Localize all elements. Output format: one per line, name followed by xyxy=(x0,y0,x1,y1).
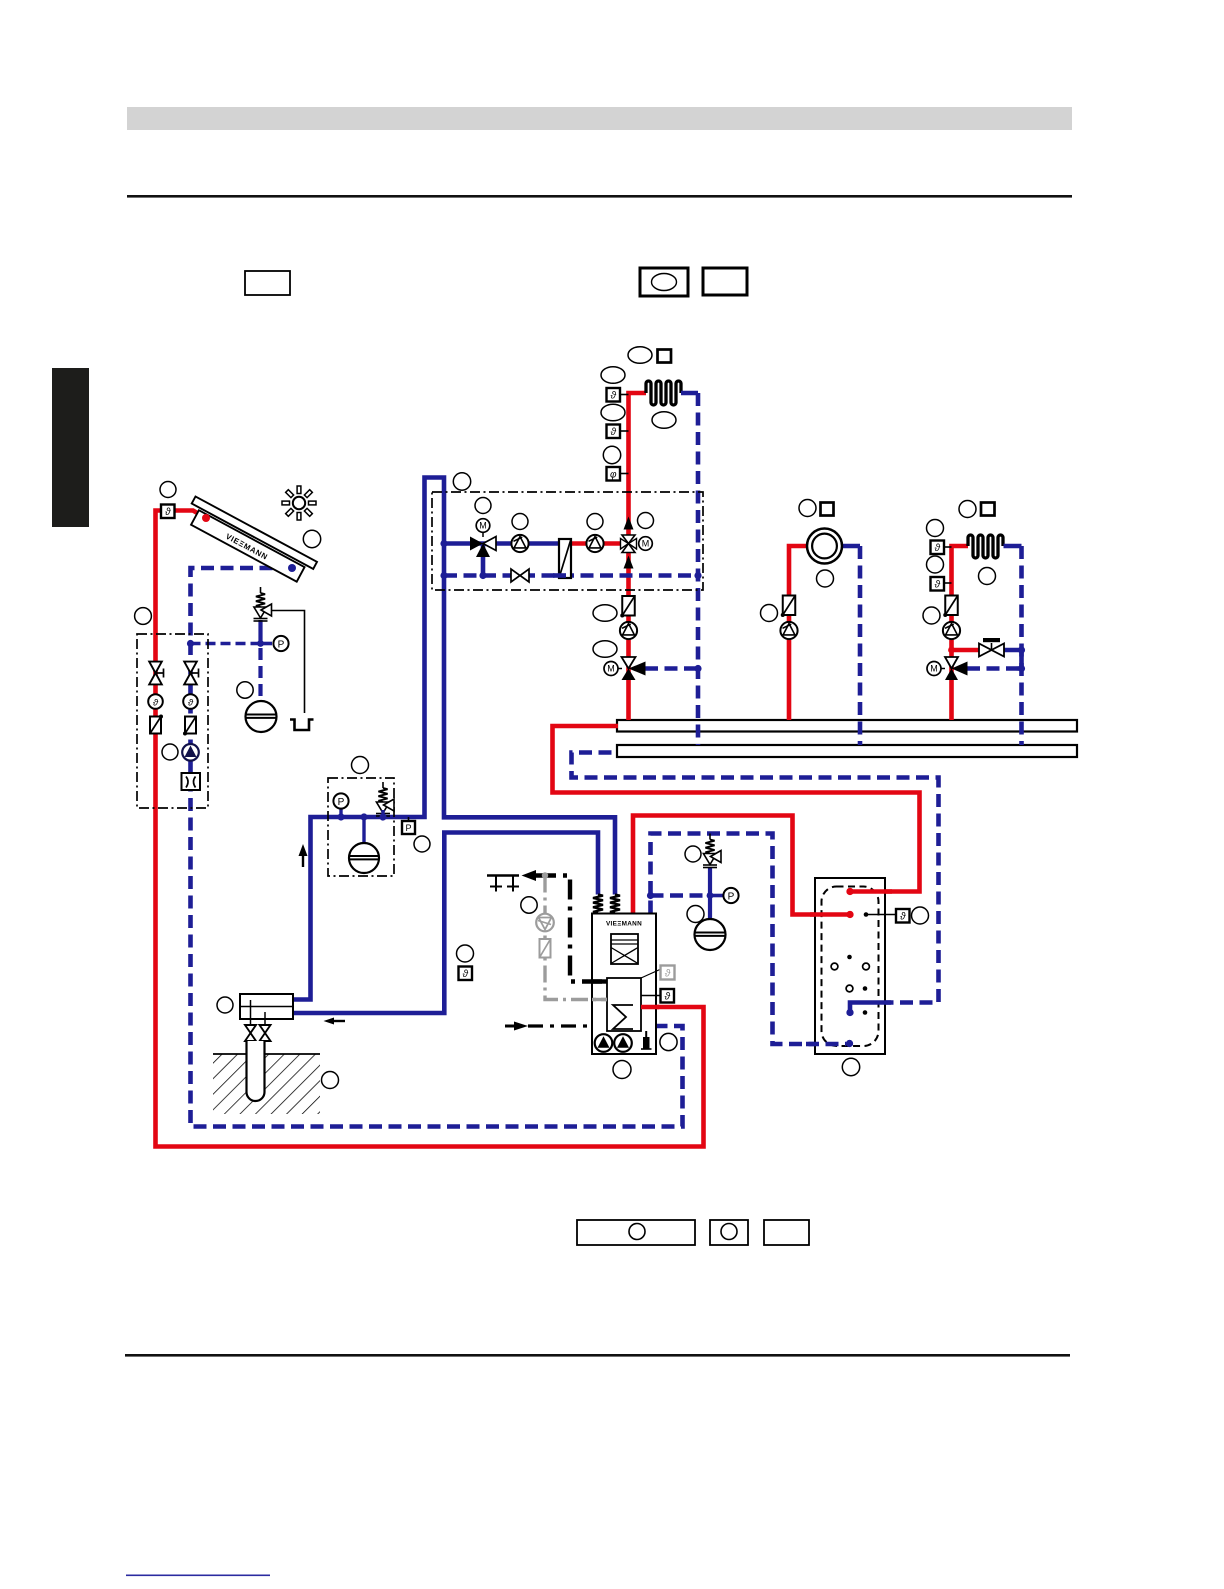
solar collector panel xyxy=(183,497,317,586)
square label circuit 1 xyxy=(658,350,672,363)
svg-text:φ: φ xyxy=(610,470,617,481)
balloon c3 mid xyxy=(979,568,996,585)
legend controller box 2 xyxy=(703,268,747,295)
probe shutoff valve left xyxy=(245,1025,256,1033)
HP heat exchanger block xyxy=(607,978,641,1031)
heating circuit 1 return (blue) xyxy=(681,391,698,396)
balloon tank xyxy=(842,1058,859,1075)
footer link line xyxy=(126,1575,270,1577)
balloon sensor c3 a xyxy=(927,520,944,537)
circuit 3 bypass (red + blue) xyxy=(952,648,980,653)
tank pipe stubs over casing xyxy=(850,889,892,894)
circuit 3 pump xyxy=(943,622,960,639)
sensor flow temp 1 xyxy=(620,394,629,396)
heating circuit 2 supply (red) xyxy=(789,546,807,720)
svg-text:ϑ: ϑ xyxy=(935,580,941,591)
heating circuit 3 supply (red) xyxy=(952,546,969,720)
balloon circuit 3 top xyxy=(959,501,976,518)
solar expansion vessel xyxy=(246,701,277,732)
balloon below air heater xyxy=(817,570,834,587)
well supply line black dash-dot xyxy=(536,876,607,982)
pressure gauge P solar xyxy=(273,636,288,651)
balloon circuit 2 check xyxy=(761,605,778,622)
sun symbol xyxy=(282,486,316,520)
square label circuit 3 xyxy=(981,503,995,516)
svg-text:ϑ: ϑ xyxy=(463,969,469,980)
HP sensor flow xyxy=(641,995,661,997)
pressure gauge P DHW xyxy=(723,888,738,903)
svg-text:VIEΞMANN: VIEΞMANN xyxy=(606,921,642,928)
well pump gray xyxy=(536,914,554,932)
circuit 3 check valve xyxy=(945,596,958,616)
circuit 2 check valve xyxy=(783,596,796,616)
circuit 2 air heater xyxy=(807,529,842,564)
NC bypass valve xyxy=(511,569,520,582)
svg-text:ϑ: ϑ xyxy=(611,391,617,402)
svg-text:P: P xyxy=(405,823,411,833)
heating circuit 3 return (blue) xyxy=(1004,544,1022,549)
circuit 3 diverting valve xyxy=(945,657,958,669)
NC 4-way mixer xyxy=(622,535,635,544)
svg-text:ϑ: ϑ xyxy=(153,698,159,709)
DHW loading pipe HP-to-tank (red) xyxy=(633,816,853,915)
balloon HP right xyxy=(660,1033,677,1050)
HP vibration spring left xyxy=(593,895,603,914)
svg-text:ϑ: ϑ xyxy=(611,427,617,438)
NC return dash over HX xyxy=(553,573,566,578)
pressure sensor square xyxy=(408,817,410,821)
HP internal pump 2 xyxy=(614,1034,632,1052)
svg-text:M: M xyxy=(642,539,650,549)
circuit 1 check valve xyxy=(622,596,635,616)
HP internal pump 1 xyxy=(595,1034,613,1052)
balloon solar station xyxy=(135,608,152,625)
heating return pipe tank-to-manifold (blue dashed) xyxy=(572,753,939,1012)
balloon brine safety group xyxy=(352,757,369,774)
solar pump xyxy=(182,744,199,761)
brine pipe B (probe bottom to HP left spring) xyxy=(292,833,598,1014)
NC box heating side (red) xyxy=(571,541,629,546)
supply manifold beam xyxy=(617,720,1077,732)
mains water symbol xyxy=(487,874,519,877)
balloon ground probe xyxy=(322,1072,339,1089)
circuit 1 diverting valve xyxy=(622,657,636,669)
balloon circuit 1 xyxy=(603,446,620,463)
circuit 3 bypass valve xyxy=(979,644,992,657)
balloon pressure sensor xyxy=(414,836,430,852)
oval label C circuit 1 xyxy=(601,404,625,421)
svg-text:M: M xyxy=(930,664,938,674)
square label circuit 2 xyxy=(821,503,834,516)
brine safety valve xyxy=(382,782,384,788)
balloon well pump xyxy=(521,897,537,913)
HP pipe stubs over casing xyxy=(641,1005,659,1010)
oval label B circuit 1 xyxy=(601,367,625,384)
balloon 4-way mixer xyxy=(638,513,654,529)
check valve solar return xyxy=(185,717,196,734)
DHW expansion vessel xyxy=(695,919,726,950)
svg-text:P: P xyxy=(728,892,735,903)
bottom legend box 1 xyxy=(577,1220,695,1245)
svg-text:M: M xyxy=(479,521,487,531)
check valve solar supply xyxy=(150,717,161,734)
sensor flow temp 3 xyxy=(944,546,952,548)
flow arrow above mixer xyxy=(624,517,634,530)
balloon sensor c3 b xyxy=(927,556,944,573)
balloon NC valve xyxy=(475,498,491,514)
humidity sensor phi xyxy=(620,473,629,475)
flow arrow left xyxy=(324,1018,335,1025)
balloon DHW safety valve xyxy=(685,846,701,862)
circuit 3 valve branch (blue dashed) xyxy=(967,666,1022,671)
legend controller box with oval xyxy=(640,268,688,296)
shutoff valve solar return xyxy=(184,662,197,673)
sensor 2 circuit 3 xyxy=(944,582,952,584)
brine expansion vessel xyxy=(349,843,379,873)
outdoor temperature sensor xyxy=(459,967,473,981)
motor M circuit 3 valve xyxy=(941,668,945,670)
NC pump brine side xyxy=(511,535,528,552)
motor M circuit 1 valve xyxy=(618,668,622,670)
probe header manifold xyxy=(240,994,293,1019)
oval label pump 1 xyxy=(593,641,617,658)
balloon NC pump xyxy=(512,514,528,530)
balloon DHW vessel xyxy=(687,906,704,923)
ground hatch xyxy=(213,1054,320,1114)
tank inner vessel dashed xyxy=(822,887,879,1047)
cold feed pipe HP-to-tank-bottom (blue dashed) xyxy=(651,834,847,1045)
collector supply connection dot xyxy=(202,514,210,522)
HP sensor gray xyxy=(641,969,661,978)
solar return pipe (blue dashed) xyxy=(191,568,683,1127)
NC box return line (blue dashed) xyxy=(444,573,698,578)
oval label check valve 1 xyxy=(593,605,617,622)
tank port dots xyxy=(847,955,852,960)
balloon solar pump xyxy=(162,744,178,760)
side tab xyxy=(52,368,89,527)
heating circuit 3 radiator coil xyxy=(968,535,1003,558)
heating circuit 1 radiator coil xyxy=(646,381,681,405)
thermometer solar supply xyxy=(148,694,163,709)
header rule xyxy=(127,195,1072,198)
header gray bar xyxy=(127,107,1072,130)
balloon NC pump 2 xyxy=(587,514,603,530)
svg-text:ϑ: ϑ xyxy=(935,543,941,554)
collector sensor xyxy=(161,505,175,519)
NC pump heating side xyxy=(586,535,603,552)
heating circuit 1 supply riser (red) xyxy=(629,393,647,720)
motor M 4-way mixer xyxy=(639,537,653,551)
solar safety valve xyxy=(260,587,262,593)
shutoff valve solar supply xyxy=(149,662,162,673)
circuit 1 valve branch (blue dashed) xyxy=(645,666,698,671)
water arrow xyxy=(522,870,537,881)
solar blow-off line to funnel xyxy=(272,611,305,714)
svg-text:ϑ: ϑ xyxy=(900,912,906,923)
motor M NC valve xyxy=(482,532,484,537)
balloon collector xyxy=(303,530,320,547)
circuit 1 pump xyxy=(620,622,637,639)
legend box empty xyxy=(245,271,290,295)
tank sensor square xyxy=(896,909,910,923)
borehole probe xyxy=(247,1041,265,1101)
balloon NC box xyxy=(453,473,470,490)
NC box boundary xyxy=(432,492,703,590)
NC heat exchanger xyxy=(559,539,571,578)
balloon probe header xyxy=(217,997,233,1013)
svg-text:P: P xyxy=(338,797,345,808)
heating supply pipe manifold-to-tank (red) xyxy=(553,726,920,892)
balloon collector sensor xyxy=(160,482,176,498)
tank connection supply top xyxy=(846,888,853,895)
svg-text:ϑ: ϑ xyxy=(188,698,194,709)
well gray line xyxy=(545,876,607,1000)
return manifold beam xyxy=(617,745,1077,757)
solar station boundary box xyxy=(137,634,208,808)
brine expansion vessel stub xyxy=(362,817,365,843)
HP heater element xyxy=(643,1037,650,1049)
well check valve gray xyxy=(540,939,551,958)
brine safety group box xyxy=(328,778,394,876)
solar safety branch (blue dashed) xyxy=(191,642,261,646)
balloon outdoor sensor xyxy=(457,945,474,962)
svg-text:ϑ: ϑ xyxy=(665,969,671,980)
solar supply pipe (red) xyxy=(156,511,704,1147)
svg-text:ϑ: ϑ xyxy=(665,992,671,1003)
HP compressor module xyxy=(611,934,638,964)
pressure gauge P brine xyxy=(339,809,342,817)
flow limiter xyxy=(182,773,201,790)
DHW safety branch (blue dashed) xyxy=(651,893,711,898)
heat pump casing xyxy=(592,914,656,1055)
balloon solar expansion vessel xyxy=(237,682,253,698)
balloon circuit 3 check xyxy=(923,607,940,624)
NC mixing valve 3-way xyxy=(470,537,483,551)
oval label D circuit 1 xyxy=(652,412,676,429)
thermometer solar return xyxy=(183,694,198,709)
tank connection loading xyxy=(846,911,853,918)
collector return connection dot xyxy=(288,564,296,572)
circuit 2 pump xyxy=(780,622,797,639)
probe shutoff valve right xyxy=(260,1025,271,1033)
NC box mixer line (blue) xyxy=(444,541,559,546)
bottom legend box 3 xyxy=(764,1220,809,1245)
flow arrow up xyxy=(299,844,308,856)
oval label A circuit 1 xyxy=(628,347,652,364)
heating circuit 2 return (blue) xyxy=(842,544,860,549)
svg-text:P: P xyxy=(278,640,285,651)
balloon tank sensor xyxy=(912,907,929,924)
drain funnel xyxy=(290,720,314,731)
balloon HP below xyxy=(613,1061,631,1079)
svg-text:ϑ: ϑ xyxy=(165,507,171,518)
brine pipe A (probe top to HP right spring) xyxy=(292,478,615,1000)
sensor 2 circuit 1 xyxy=(620,430,629,432)
tank sensor dot xyxy=(864,912,869,917)
balloon circuit 2 top xyxy=(799,500,816,517)
tank casing xyxy=(815,878,885,1054)
flow arrow below mixer xyxy=(624,556,634,569)
svg-text:M: M xyxy=(607,664,615,674)
DHW safety valve xyxy=(709,834,711,840)
footer rule xyxy=(125,1354,1070,1357)
discharge arrow line xyxy=(505,1025,515,1028)
HP vibration spring right xyxy=(610,895,620,914)
bottom legend box 2 xyxy=(710,1220,748,1245)
